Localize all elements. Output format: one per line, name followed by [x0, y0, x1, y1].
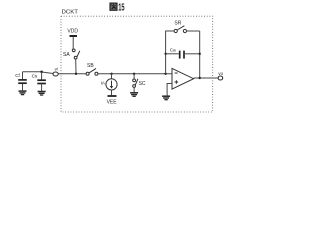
power VDD [67, 28, 78, 49]
wire: rail to current source IA [111, 74, 113, 79]
switch SC [133, 79, 146, 88]
wire: SC to ground [133, 87, 135, 92]
svg-text:VEE: VEE [107, 100, 118, 106]
output terminal vo [218, 71, 223, 80]
capacitor Cf [15, 72, 27, 91]
svg-text:15: 15 [118, 2, 125, 13]
junction (SA-rail) [75, 73, 77, 75]
op-amp U1 [172, 68, 194, 89]
wire: IA to VEE [111, 90, 113, 95]
ground (below Cs) [38, 92, 46, 96]
junction (SC-rail) [133, 73, 135, 75]
wire: op-amp + input stub to ground [167, 84, 172, 96]
capacitor Ca (feedback) [170, 47, 184, 58]
svg-text:Ca: Ca [170, 47, 176, 52]
wire: feedback left vertical [166, 31, 174, 74]
junction (cap line right) [199, 53, 201, 55]
wire: left input rail from Cf corner through Cs and vi terminal to switch SB [23, 72, 87, 74]
junction (output-feedback) [199, 77, 201, 79]
current source IA [101, 79, 118, 90]
wire: SR to right feedback vertical [187, 30, 200, 32]
svg-text:SR: SR [174, 21, 181, 27]
wire: SA to rail [75, 59, 77, 74]
input terminal vi [53, 66, 58, 76]
junction (feedback-rail) [164, 73, 166, 75]
svg-text:vo: vo [218, 71, 223, 76]
ground (below Cf) [19, 91, 27, 95]
switch SA [63, 49, 80, 59]
switch SR [174, 21, 186, 33]
junction (IA-rail) [110, 73, 112, 75]
svg-text:DCKT: DCKT [62, 10, 79, 16]
wire: cap feedback left segment [166, 53, 179, 55]
svg-text:vi: vi [55, 66, 58, 71]
wire: rail from SB to op-amp inverting input [98, 73, 172, 75]
ground (op-amp + input) [162, 96, 170, 100]
wire: cap feedback right segment [185, 53, 200, 55]
power VEE [107, 96, 118, 106]
wire: op-amp output to vo terminal [194, 77, 219, 79]
capacitor Cs [32, 71, 46, 92]
svg-text:SC: SC [139, 81, 146, 87]
svg-text:SA: SA [63, 52, 70, 58]
junction (cap line left) [164, 53, 166, 55]
switch SB [86, 63, 98, 75]
figure label 図15 [110, 2, 125, 13]
svg-text:SB: SB [87, 63, 94, 69]
dashed box DCKT boundary [61, 16, 213, 112]
ground (below SC) [130, 93, 138, 97]
svg-text:Cf: Cf [15, 73, 20, 78]
wire: rail to switch SC [133, 74, 135, 79]
svg-text:VDD: VDD [67, 28, 78, 34]
svg-text:Cs: Cs [32, 74, 38, 79]
wire: feedback right vertical [199, 31, 201, 78]
